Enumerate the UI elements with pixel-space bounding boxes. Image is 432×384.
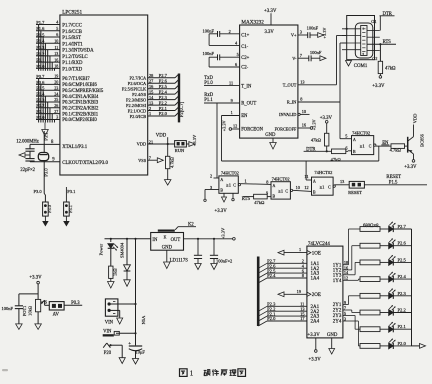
svg-text:+3.3V: +3.3V	[309, 357, 322, 362]
U2 left pin names	[241, 34, 263, 133]
svg-text:3: 3	[56, 115, 58, 120]
svg-text:P2.0: P2.0	[159, 111, 168, 116]
svg-text:A: A	[273, 184, 276, 188]
svg-text:C1+: C1+	[241, 34, 249, 39]
U1 P0 pin name labels	[62, 77, 104, 123]
svg-text:2Y4: 2Y4	[333, 320, 342, 325]
net P3.1 stub	[44, 131, 49, 144]
svg-text:P2.4/SS: P2.4/SS	[132, 92, 147, 97]
scan artifact	[2, 369, 8, 371]
net VIN label with pad	[103, 330, 137, 337]
svg-text:74LVC244: 74LVC244	[308, 242, 331, 247]
74HCT02 gate U3B	[266, 176, 292, 199]
svg-text:P2.6/OCA: P2.6/OCA	[128, 81, 147, 86]
svg-text:5: 5	[56, 26, 58, 31]
svg-text:P1.5/RST: P1.5/RST	[62, 36, 81, 41]
power VDD at Q1 collector	[413, 113, 418, 137]
svg-text:P0.3: P0.3	[71, 301, 80, 306]
svg-text:C2-: C2-	[241, 66, 248, 71]
svg-text:74HCT02: 74HCT02	[314, 170, 332, 175]
potentiometer POT1 10k	[22, 299, 49, 329]
wire VDD pin 21	[148, 134, 175, 146]
connector RESET jumper	[348, 181, 364, 195]
svg-text:+3.3V: +3.3V	[404, 165, 417, 170]
svg-text:27: 27	[54, 109, 58, 114]
svg-text:P2.7: P2.7	[398, 224, 407, 229]
svg-text:12.000MHz: 12.000MHz	[16, 139, 39, 144]
svg-text:+3.3V: +3.3V	[264, 9, 277, 14]
net DTR at COM1	[380, 12, 395, 31]
wire EN pin 1	[222, 110, 240, 161]
wire gate U3A output 1 to U3B input 8	[241, 178, 271, 184]
svg-text:P0.0/CMP2/KBI0: P0.0/CMP2/KBI0	[62, 118, 97, 123]
net TxD P1.0 to T_IN pin 11	[204, 76, 240, 86]
svg-text:1OE: 1OE	[312, 252, 321, 257]
svg-text:13: 13	[149, 100, 153, 105]
svg-text:24: 24	[54, 91, 58, 96]
net RTS at COM1 with pullup	[367, 40, 396, 61]
svg-text:LPC9251: LPC9251	[62, 9, 82, 15]
ground below U4	[329, 338, 335, 354]
bus P2[0..7]	[179, 74, 185, 123]
net RESET P1.5	[364, 175, 427, 185]
svg-text:RUN: RUN	[175, 148, 185, 153]
svg-text:13: 13	[54, 51, 58, 56]
svg-text:AV: AV	[53, 312, 60, 317]
capacitor C8 100nF	[2, 294, 39, 330]
svg-text:RESET: RESET	[386, 175, 401, 180]
svg-text:5: 5	[345, 134, 347, 139]
wire U3C input 11 from EN line	[304, 161, 311, 180]
svg-text:INVALID: INVALID	[279, 112, 296, 117]
U1 XTAL and power pin names	[62, 142, 146, 167]
svg-text:C1-: C1-	[241, 45, 248, 50]
svg-text:P1.0/TXD: P1.0/TXD	[62, 67, 82, 72]
svg-text:P0.6/CMP1/KBI6: P0.6/CMP1/KBI6	[62, 83, 97, 88]
svg-text:12: 12	[233, 124, 237, 129]
svg-text:1kΩ: 1kΩ	[112, 268, 117, 276]
ground of regulator	[164, 250, 171, 268]
svg-text:B: B	[313, 190, 316, 194]
svg-text:VIN: VIN	[105, 321, 114, 326]
svg-text:P20: P20	[104, 351, 112, 356]
svg-text:4: 4	[56, 20, 58, 25]
svg-text:1: 1	[245, 178, 247, 183]
svg-text:1A4: 1A4	[311, 277, 320, 282]
svg-text:RESET: RESET	[348, 190, 362, 195]
U4 1A inputs P2.7-P2.4	[258, 259, 319, 284]
svg-text:IN: IN	[152, 238, 158, 243]
svg-text:P0.2/CIN2A/KBI2: P0.2/CIN2A/KBI2	[62, 107, 99, 112]
svg-text:P2.1: P2.1	[398, 324, 407, 329]
svg-text:P2.0: P2.0	[267, 316, 276, 321]
svg-text:P2.7/ICA: P2.7/ICA	[129, 76, 147, 81]
svg-text:4.7kΩ: 4.7kΩ	[390, 148, 402, 153]
net P0.3	[64, 301, 82, 306]
switch K2	[158, 223, 196, 232]
wire R_IN pin 8 to COM1 and gate	[298, 43, 347, 139]
svg-text:8: 8	[302, 273, 304, 278]
power +3.3V above U2	[264, 9, 277, 35]
svg-text:100nF: 100nF	[307, 25, 319, 30]
svg-text:T_IN: T_IN	[241, 84, 252, 89]
svg-text:+3.3V: +3.3V	[29, 275, 42, 280]
svg-text:+3.3V: +3.3V	[221, 227, 226, 239]
svg-text:12: 12	[304, 185, 308, 190]
svg-text:11: 11	[54, 45, 58, 50]
regulator U5 LD1117S	[151, 233, 189, 264]
svg-text:P0.5/CMPREF/KBI5: P0.5/CMPREF/KBI5	[62, 89, 104, 94]
U2 right pin names	[265, 33, 297, 138]
ground below VIN	[111, 310, 123, 324]
svg-text:P2.6: P2.6	[398, 241, 407, 246]
svg-text:P2.1: P2.1	[159, 106, 167, 111]
svg-text:10: 10	[54, 39, 58, 44]
svg-text:LD1117S: LD1117S	[170, 258, 189, 263]
svg-text:P3.1: P3.1	[67, 189, 75, 194]
svg-text:2Y1: 2Y1	[333, 303, 342, 308]
svg-text:COM1: COM1	[354, 64, 368, 69]
svg-text:P2.4: P2.4	[159, 89, 168, 94]
svg-text:9: 9	[266, 191, 268, 196]
svg-text:C: C	[285, 189, 288, 193]
svg-text:P2.2/MOSI: P2.2/MOSI	[126, 103, 147, 108]
svg-text:C2+: C2+	[241, 56, 249, 61]
U1 P2 pin name labels	[122, 76, 147, 119]
svg-text:5: 5	[237, 52, 239, 57]
capacitor C6 100nFx2 on 3.3V rail	[210, 238, 232, 270]
74HCT02 gate U3D	[352, 130, 376, 154]
U4 2Y outputs	[333, 300, 347, 325]
svg-text:N5A: N5A	[141, 315, 146, 324]
svg-text:P2[0..7]: P2[0..7]	[180, 101, 185, 117]
ground below COM1	[346, 60, 352, 66]
connector COM1 DB9 body	[347, 16, 378, 70]
wire VSS pin 7 to ground arrow	[148, 156, 164, 163]
svg-text:1: 1	[299, 247, 301, 252]
svg-text:22pF×2: 22pF×2	[20, 168, 35, 173]
svg-text:18: 18	[54, 64, 58, 69]
resistor network 680ohm x8	[360, 224, 380, 348]
svg-text:10: 10	[296, 185, 300, 190]
svg-text:FORCEON: FORCEON	[241, 128, 263, 133]
resistor R-1k of power LED	[108, 266, 118, 288]
svg-text:19: 19	[54, 74, 58, 79]
svg-text:10: 10	[302, 109, 306, 114]
wire N5A rail	[134, 238, 146, 346]
crystal Y1 12.000MHz	[16, 139, 60, 162]
svg-text:A: A	[353, 138, 356, 142]
svg-text:P1.2/T0/SLC: P1.2/T0/SLC	[62, 55, 87, 60]
svg-text:1Y4: 1Y4	[333, 279, 342, 284]
wire +3.3V output of regulator	[184, 227, 236, 240]
svg-text:9: 9	[231, 98, 233, 103]
net DTR line with pullup to U3D input 6	[304, 146, 352, 153]
svg-text:19: 19	[297, 289, 301, 294]
transistor Q1 BC856	[408, 133, 425, 154]
svg-text:P2.5/SPICLK: P2.5/SPICLK	[122, 87, 147, 92]
74HCT02 gate U3C	[312, 170, 336, 195]
wire 2OE with ground arrow	[278, 289, 321, 298]
svg-text:≥1: ≥1	[320, 184, 325, 189]
svg-text:P0.7: P0.7	[36, 74, 45, 79]
resistor R-4.7k to Q1 base	[390, 144, 408, 153]
connector VIN 2-pin	[105, 299, 118, 326]
svg-text:15: 15	[149, 89, 153, 94]
svg-text:GND: GND	[327, 333, 338, 338]
svg-text:G1: G1	[371, 19, 376, 24]
U1 P1 pin name labels	[62, 24, 94, 73]
wire 1OE with ground arrow	[278, 247, 321, 256]
svg-text:G2: G2	[372, 56, 377, 61]
port P1 net labels and wires	[36, 20, 60, 71]
svg-text:≥1: ≥1	[278, 188, 283, 193]
ground below P0 bus	[42, 123, 49, 137]
svg-text:P2.3/MISO: P2.3/MISO	[126, 97, 146, 102]
connector AV jumper	[49, 302, 64, 318]
power +3.3V above POT1	[29, 275, 42, 299]
svg-text:+3.3V: +3.3V	[192, 134, 197, 146]
svg-text:B: B	[353, 150, 356, 154]
svg-text:P2.0: P2.0	[398, 341, 407, 346]
svg-text:T_OUT: T_OUT	[283, 82, 297, 87]
U4 1Y outputs	[333, 260, 349, 284]
svg-text:P3.0: P3.0	[43, 168, 48, 177]
svg-text:≥1: ≥1	[360, 143, 365, 148]
svg-text:+3.3V: +3.3V	[322, 27, 327, 39]
U4 2A inputs P2.3-P2.0	[258, 302, 319, 327]
svg-text:2: 2	[210, 173, 212, 178]
wire INVALID pin 10 stub	[298, 109, 310, 116]
COM1 right pin stubs	[367, 31, 380, 51]
svg-text:P3.1: P3.1	[44, 132, 49, 140]
svg-text:A: A	[313, 179, 316, 183]
svg-text:10kΩ: 10kΩ	[27, 305, 32, 316]
capacitor C1 100nF	[203, 28, 240, 45]
wire U3D input 5 from R_IN	[340, 134, 352, 139]
capacitor C-22pF x2	[20, 144, 35, 172]
svg-text:P0.3/CIN1B/KBI3: P0.3/CIN1B/KBI3	[62, 101, 98, 106]
wire gate U3A input 3	[204, 185, 219, 202]
svg-text:P3.1: P3.1	[68, 205, 73, 213]
bus P2 vertical at U4	[257, 257, 260, 327]
ground of U2	[270, 138, 277, 149]
svg-text:P1.7/CCC: P1.7/CCC	[62, 24, 82, 29]
svg-text:74HCT02: 74HCT02	[221, 170, 239, 175]
op-amp U2 MAX3232 body	[240, 20, 298, 139]
svg-text:C: C	[328, 185, 331, 189]
svg-text:P3.0: P3.0	[47, 205, 52, 213]
svg-text:V-: V-	[292, 56, 297, 61]
resistor R-47k RTS pullup	[372, 61, 396, 89]
svg-text:B: B	[273, 194, 276, 198]
capacitor C5 on 3.3V rail	[194, 238, 202, 270]
power +3.3V at FORCEOFF pin 16	[298, 118, 317, 130]
svg-text:4.7kΩ: 4.7kΩ	[170, 157, 175, 168]
svg-text:8: 8	[300, 97, 302, 102]
svg-text:100nF: 100nF	[310, 50, 322, 55]
svg-text:6: 6	[56, 32, 58, 37]
74HCT02 gate U3A	[219, 170, 241, 193]
svg-text:11: 11	[229, 81, 233, 86]
svg-text:2: 2	[149, 106, 151, 111]
svg-text:13: 13	[300, 79, 304, 84]
svg-text:P2.2: P2.2	[398, 308, 407, 313]
svg-text:P2.6: P2.6	[159, 78, 168, 83]
svg-text:P3.0: P3.0	[34, 189, 43, 194]
svg-text:13: 13	[340, 179, 344, 184]
diode D-SM4004	[119, 238, 130, 287]
svg-text:3: 3	[210, 185, 212, 190]
net P3.0 stub	[43, 162, 48, 185]
svg-text:11: 11	[304, 174, 308, 179]
svg-text:23: 23	[54, 85, 58, 90]
svg-text:1: 1	[149, 111, 151, 116]
svg-text:K: K	[164, 236, 167, 240]
ground arrow left of crystal	[19, 153, 30, 158]
net RxD P1.1 to R_OUT pin 9	[204, 93, 240, 103]
svg-text:VDD: VDD	[156, 134, 167, 139]
svg-text:FORCEOFF: FORCEOFF	[275, 127, 297, 132]
svg-text:2: 2	[229, 29, 231, 34]
net EN from U3D output	[376, 141, 391, 161]
power +3.3V below gate U3A	[215, 193, 235, 214]
svg-text:EN: EN	[241, 114, 248, 119]
svg-text:74HCT02: 74HCT02	[272, 176, 290, 181]
svg-text:P2.3: P2.3	[398, 291, 407, 296]
svg-text:1Y3: 1Y3	[333, 273, 342, 278]
resistor R-47k RTS into U3B pin 9	[242, 191, 271, 205]
svg-text:OUT: OUT	[171, 238, 181, 243]
power +3.3V arrow right of RUN	[186, 134, 197, 146]
wire LED common rail	[412, 229, 426, 348]
svg-text:10μF: 10μF	[136, 349, 146, 354]
resistor R-47k DTR series	[331, 149, 346, 162]
svg-text:47kΩ: 47kΩ	[254, 200, 265, 205]
svg-text:3: 3	[300, 30, 302, 35]
op-amp U4 74LVC244 body	[307, 242, 343, 338]
svg-text:VSS: VSS	[138, 158, 147, 163]
svg-text:P2.7: P2.7	[159, 73, 168, 78]
svg-text:P2.1/OCD: P2.1/OCD	[128, 108, 146, 113]
svg-text:VDD: VDD	[413, 113, 418, 123]
svg-text:P1.6: P1.6	[36, 26, 45, 31]
svg-text:+3.3V: +3.3V	[222, 119, 227, 131]
wire T_OUT pin 13 to COM1	[298, 36, 347, 85]
svg-text:R_OUT: R_OUT	[241, 102, 256, 107]
svg-text:R_IN: R_IN	[287, 100, 297, 105]
svg-text:VIN: VIN	[103, 330, 112, 335]
svg-text:P1.7: P1.7	[36, 20, 45, 25]
svg-text:100nF: 100nF	[203, 28, 215, 33]
svg-text:+3.3V: +3.3V	[308, 333, 321, 338]
svg-text:25: 25	[54, 97, 58, 102]
svg-text:2Y2: 2Y2	[333, 309, 342, 314]
op-amp U1 MCU LPC9251 body	[60, 9, 148, 175]
svg-text:P1.1/RXD: P1.1/RXD	[62, 61, 83, 66]
capacitor C4 100nF at V-	[298, 50, 326, 62]
svg-text:100nF: 100nF	[203, 51, 215, 56]
svg-text:P0.1/CIN2B/KBI1: P0.1/CIN2B/KBI1	[62, 112, 98, 117]
capacitor C3 100nF at V+	[298, 25, 327, 38]
power +3.3V at FORCEON pin 12	[222, 119, 240, 131]
svg-text:8: 8	[266, 179, 268, 184]
svg-text:BC856: BC856	[420, 133, 425, 147]
svg-text:P1.3/INT0/SDA: P1.3/INT0/SDA	[62, 49, 94, 54]
svg-text:P2.4: P2.4	[398, 274, 407, 279]
svg-text:1: 1	[231, 110, 233, 115]
svg-text:B: B	[220, 189, 223, 193]
port P0 net labels and wires	[36, 74, 60, 123]
svg-text:GND: GND	[265, 133, 276, 138]
connector J-P3.1 jumper	[63, 187, 75, 227]
power +3.3V at Q1 emitter	[404, 154, 417, 170]
wire U3B output 10 to U3C input 12	[293, 185, 312, 191]
test point P20	[103, 343, 125, 364]
svg-text:P0.7/T1/KBI7: P0.7/T1/KBI7	[62, 77, 90, 82]
svg-text:20: 20	[54, 80, 58, 85]
COM1 left pin stubs	[342, 28, 361, 50]
svg-text:28: 28	[149, 73, 153, 78]
wire U3C output 13	[334, 179, 349, 185]
svg-text:P1.1: P1.1	[204, 98, 213, 103]
capacitor C2 100nF	[203, 51, 240, 67]
svg-text:P2.0/ICB: P2.0/ICB	[130, 114, 147, 119]
svg-text:P1.4/INT1: P1.4/INT1	[62, 42, 83, 47]
svg-text:100nF: 100nF	[2, 306, 14, 311]
svg-text:EN: EN	[382, 141, 389, 146]
svg-text:P0.4/CIN1A/KBI4: P0.4/CIN1A/KBI4	[62, 95, 99, 100]
LEDs D1-D8 with labels	[380, 222, 412, 349]
svg-text:GND: GND	[162, 246, 173, 251]
power +3.3V below U4	[309, 338, 322, 363]
caption text	[180, 369, 246, 378]
svg-text:XTAL1/P3.1: XTAL1/P3.1	[62, 145, 87, 150]
svg-text:100nF×2: 100nF×2	[216, 259, 232, 264]
svg-text:P2.4: P2.4	[267, 273, 276, 278]
svg-text:P1.5: P1.5	[389, 180, 398, 185]
svg-text:1: 1	[190, 370, 194, 378]
svg-text:CLKOUT/XTAL2/P3.0: CLKOUT/XTAL2/P3.0	[62, 161, 108, 166]
wires U4 outputs to LED resistors	[343, 229, 360, 346]
port P2 net labels, pin numbers and bus entries	[148, 73, 179, 116]
capacitor C7 10uF electrolytic	[128, 342, 145, 364]
svg-text:74HCT02: 74HCT02	[352, 130, 370, 135]
svg-text:Power: Power	[99, 243, 104, 255]
svg-text:P2.5: P2.5	[159, 84, 168, 89]
svg-text:C: C	[233, 184, 236, 188]
svg-text:47kΩ: 47kΩ	[311, 137, 322, 142]
wire regulator input	[105, 238, 151, 240]
svg-text:+3.3V: +3.3V	[311, 118, 316, 130]
COM1 center pin marks	[362, 26, 365, 56]
resistor R-4.7k below VDD	[164, 144, 174, 185]
LED D-Power with resistor	[99, 238, 119, 266]
svg-text:2OE: 2OE	[312, 293, 321, 298]
svg-text:MAX3232: MAX3232	[241, 20, 264, 26]
wire EN long net to U2 pin1 and U3C	[222, 160, 379, 162]
svg-text:3.3V: 3.3V	[265, 30, 275, 35]
svg-text:SM4004: SM4004	[119, 242, 124, 258]
svg-text:26: 26	[54, 103, 58, 108]
svg-text:RTS: RTS	[242, 197, 251, 202]
svg-text:2Y3: 2Y3	[333, 314, 342, 319]
svg-text:VDD: VDD	[137, 142, 147, 147]
svg-text:A: A	[220, 178, 223, 182]
svg-text:+3.3V: +3.3V	[372, 84, 385, 89]
svg-text:+3.3V: +3.3V	[215, 209, 228, 214]
svg-text:P0.6: P0.6	[36, 80, 45, 85]
